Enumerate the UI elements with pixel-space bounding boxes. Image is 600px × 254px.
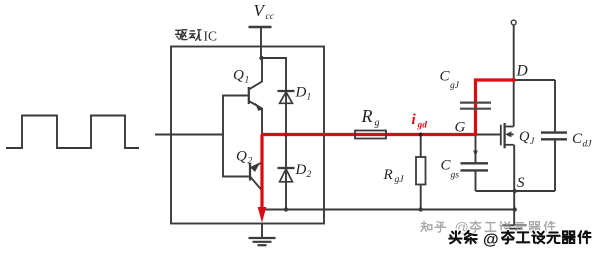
wire red Cgd branch [476, 80, 514, 136]
wire Vcc node to D1 branch [261, 58, 286, 91]
driver IC box [171, 47, 324, 224]
watermark toutiao (black) [449, 231, 590, 244]
wire ground rail [262, 209, 515, 211]
svg-text:gJ: gJ [395, 175, 405, 185]
red arrow to ground [258, 207, 267, 223]
node dot ground rail / S [513, 207, 517, 211]
svg-text:2: 2 [248, 157, 253, 167]
watermark zhihu (gray) [421, 221, 446, 232]
svg-text:gJ: gJ [450, 81, 460, 91]
wire RgJ branch [420, 135, 422, 158]
svg-text:R: R [383, 167, 393, 183]
svg-text:J: J [530, 137, 535, 147]
diode D2 branch wire [285, 135, 287, 210]
capacitor Cgd plates [460, 103, 491, 109]
svg-text:i: i [412, 112, 417, 128]
node dot cap rail / S [513, 189, 517, 193]
wire Q2 collector [250, 177, 262, 210]
capacitor Cds plates [541, 133, 567, 140]
wire source line [513, 145, 515, 226]
mosfet QJ symbol [501, 123, 514, 148]
node dot igd tap [419, 133, 423, 137]
wire cap bottom rail to S [476, 190, 556, 192]
svg-text:gd: gd [417, 121, 428, 131]
diode D2 symbol [278, 168, 295, 182]
wire Q2 emitter [250, 135, 262, 169]
svg-text:cc: cc [266, 12, 275, 22]
node dot D2 bottom [284, 207, 288, 211]
wire drain line [513, 25, 515, 127]
label igd (red) [412, 112, 428, 131]
wire Cgs branch [475, 136, 477, 163]
wire Q1 collector [249, 58, 262, 90]
wire input to driver [155, 134, 223, 136]
svg-text:D: D [295, 162, 307, 178]
square wave input signal [6, 116, 139, 149]
svg-text:D: D [295, 85, 307, 101]
transistor Q2 base bar [249, 164, 251, 181]
mosfet body arrow [505, 131, 511, 137]
svg-text:1: 1 [307, 93, 312, 103]
svg-text:S: S [517, 175, 525, 191]
svg-text:R: R [361, 106, 373, 126]
wire red gate line [262, 133, 476, 136]
svg-text:Q: Q [236, 149, 247, 165]
wire Q1 emitter [249, 101, 262, 135]
node dot at D2 crossing (red) [284, 133, 288, 137]
mosfet gate lead [476, 134, 501, 136]
node dot D junction (red) [512, 78, 516, 82]
wire red turnoff vertical [260, 135, 263, 209]
resistor RgJ box [416, 157, 426, 185]
svg-text:C: C [440, 69, 451, 85]
wire Vcc vertical [260, 27, 262, 58]
node dot RgJ bottom [419, 207, 423, 211]
svg-text:@: @ [483, 231, 499, 248]
node dot Vcc junction [259, 56, 263, 60]
svg-text:D: D [516, 63, 528, 80]
arrow on Cgs branch [473, 151, 478, 158]
Vcc supply bar [249, 26, 272, 29]
ground (driver) [249, 238, 276, 245]
svg-text:g: g [375, 118, 380, 129]
svg-text:2: 2 [307, 170, 312, 180]
resistor RF box [355, 131, 386, 139]
wire base bus [223, 96, 249, 177]
diode D1 branch wire [285, 91, 287, 135]
terminal circle at drain top [511, 20, 516, 25]
label driver IC (CJK) [176, 30, 201, 41]
svg-text:Q: Q [233, 68, 244, 84]
transistor Q1 base bar [248, 87, 250, 104]
capacitor Cgs plates [461, 163, 489, 170]
wire Cds branch [554, 80, 556, 132]
svg-text:gs: gs [451, 171, 460, 181]
svg-text:Q: Q [519, 129, 530, 145]
svg-text:IC: IC [204, 29, 218, 44]
svg-text:C: C [572, 131, 583, 147]
diode D1 symbol [278, 91, 295, 103]
transistor Q2 emitter arrow [251, 164, 260, 172]
svg-text:G: G [455, 120, 466, 136]
transistor Q1 emitter arrow [255, 103, 263, 111]
svg-text:dJ: dJ [583, 140, 593, 150]
ground (source) [502, 225, 527, 232]
red gate current path [262, 80, 514, 208]
ground stem [261, 224, 263, 238]
wire D to Cds top [514, 79, 555, 81]
svg-text:1: 1 [245, 76, 250, 86]
